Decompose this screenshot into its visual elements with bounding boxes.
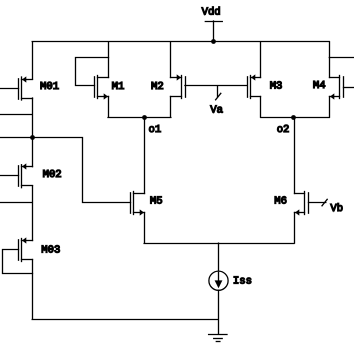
transistor M3 arrow xyxy=(251,74,255,80)
transistor M1 gate bar xyxy=(94,77,96,97)
wire M1 gate loop xyxy=(76,58,109,86)
svg-text:M02: M02 xyxy=(43,169,62,181)
transistor M6 source/drain leads xyxy=(295,193,305,195)
ground symbol xyxy=(209,334,227,336)
svg-text:Vdd: Vdd xyxy=(202,6,221,18)
transistor M1 arrow xyxy=(104,93,108,99)
transistor M5 channel bar xyxy=(133,192,135,215)
transistor M2 gate bar xyxy=(185,77,187,97)
transistor M4 channel bar xyxy=(339,76,341,99)
transistor M01 gate bar xyxy=(18,79,20,99)
wire rail corner to M4 source xyxy=(329,42,331,78)
transistor M6 arrow xyxy=(295,209,299,215)
transistor M6 gate bar xyxy=(308,193,310,213)
power Vdd bar xyxy=(205,21,222,23)
wire M2 drain to o1 xyxy=(170,97,172,118)
transistor M3 gate bar xyxy=(247,77,249,97)
wire rail to M2 source xyxy=(170,42,172,78)
transistor M6 gate lead xyxy=(309,202,326,204)
transistor M2 source/drain leads xyxy=(171,77,182,79)
transistor M02 channel bar xyxy=(21,165,23,188)
wire o2 line xyxy=(261,117,330,119)
wire top Vdd rail xyxy=(32,41,329,43)
wire tail down to Iss xyxy=(218,243,220,271)
wire M5 gate path xyxy=(33,138,131,203)
transistor M3 source/drain leads xyxy=(251,77,261,79)
wire rail to M01 source xyxy=(32,42,34,79)
svg-text:o2: o2 xyxy=(277,124,290,136)
transistor M1 channel bar xyxy=(97,76,99,99)
svg-text:Vb: Vb xyxy=(330,203,343,215)
node o1 xyxy=(142,115,147,120)
wire Iss to ground xyxy=(218,290,220,334)
wire M4 drain to o2 xyxy=(329,97,331,118)
svg-text:M5: M5 xyxy=(150,195,163,207)
transistor M5 source/drain leads xyxy=(134,193,145,195)
transistor M5 gate bar xyxy=(130,193,132,213)
transistor M01 arrow xyxy=(22,76,26,82)
current source Iss circle xyxy=(209,271,228,290)
transistor M02 source/drain leads xyxy=(22,166,33,168)
wire M02 drain to M03 source xyxy=(32,186,34,241)
wire right edge stub xyxy=(329,57,354,59)
transistor M03 arrow xyxy=(22,237,26,243)
wire left stub upper xyxy=(0,114,32,116)
wire M1 drain to o1 xyxy=(108,97,110,118)
transistor M4 gate bar xyxy=(343,77,345,97)
transistor M02 gate bar xyxy=(18,166,20,186)
transistor M01 source/drain leads xyxy=(22,79,33,81)
wire M01 drain to junction xyxy=(32,98,34,167)
wire o1 to M5 drain xyxy=(144,117,146,193)
svg-text:M01: M01 xyxy=(40,81,59,93)
transistor M1 source/drain leads xyxy=(98,77,109,79)
Va slash mark xyxy=(216,93,221,100)
wire rail to M3 source xyxy=(260,42,262,78)
svg-text:M4: M4 xyxy=(313,80,326,92)
transistor M03 channel bar xyxy=(21,239,23,262)
wire rail to M1 source xyxy=(108,42,110,78)
transistor M4 gate lead xyxy=(344,87,354,89)
wire M6 source down xyxy=(294,213,296,244)
wire source coupling line xyxy=(144,243,294,245)
transistor M2 channel bar xyxy=(181,76,183,99)
svg-text:Va: Va xyxy=(210,105,223,117)
transistor M01 channel bar xyxy=(21,77,23,100)
wire Va gate line M2-M3 xyxy=(185,85,247,87)
current source Iss arrow xyxy=(218,273,220,282)
wire M5 source down xyxy=(144,213,146,244)
transistor M5 arrow xyxy=(140,209,144,215)
wire Va tap xyxy=(217,86,219,97)
svg-text:o1: o1 xyxy=(149,124,162,136)
node o2 xyxy=(291,115,296,120)
svg-text:M03: M03 xyxy=(41,245,60,257)
wire bottom rail xyxy=(32,319,218,321)
svg-text:M2: M2 xyxy=(151,81,164,93)
node Vdd rail junction xyxy=(211,39,216,44)
wire M03 drain to bottom rail xyxy=(32,260,34,320)
transistor M02 arrow xyxy=(22,163,26,169)
svg-text:M1: M1 xyxy=(112,81,125,93)
svg-text:Iss: Iss xyxy=(233,275,252,287)
transistor M03 source/drain leads xyxy=(22,240,33,242)
wire Vdd to rail xyxy=(213,21,215,42)
transistor M4 source/drain leads xyxy=(330,77,340,79)
svg-text:M6: M6 xyxy=(274,196,287,208)
transistor M2 arrow xyxy=(177,74,181,80)
wire o2 to M6 drain xyxy=(294,117,296,193)
wire o1 line xyxy=(108,117,171,119)
node left junction xyxy=(30,135,35,140)
transistor M03 gate bar xyxy=(18,240,20,260)
transistor M3 channel bar xyxy=(250,76,252,99)
wire M3 drain to o2 xyxy=(260,97,262,118)
transistor M6 channel bar xyxy=(304,192,306,215)
transistor M02 gate lead xyxy=(0,175,19,177)
transistor M01 gate lead xyxy=(0,88,19,90)
wire left stub lower xyxy=(0,202,32,204)
transistor M4 arrow xyxy=(330,93,334,99)
wire left bias line xyxy=(0,137,32,139)
wire M03 gate loop xyxy=(3,250,33,274)
Vb slash mark xyxy=(322,199,327,206)
svg-text:M3: M3 xyxy=(270,81,283,93)
